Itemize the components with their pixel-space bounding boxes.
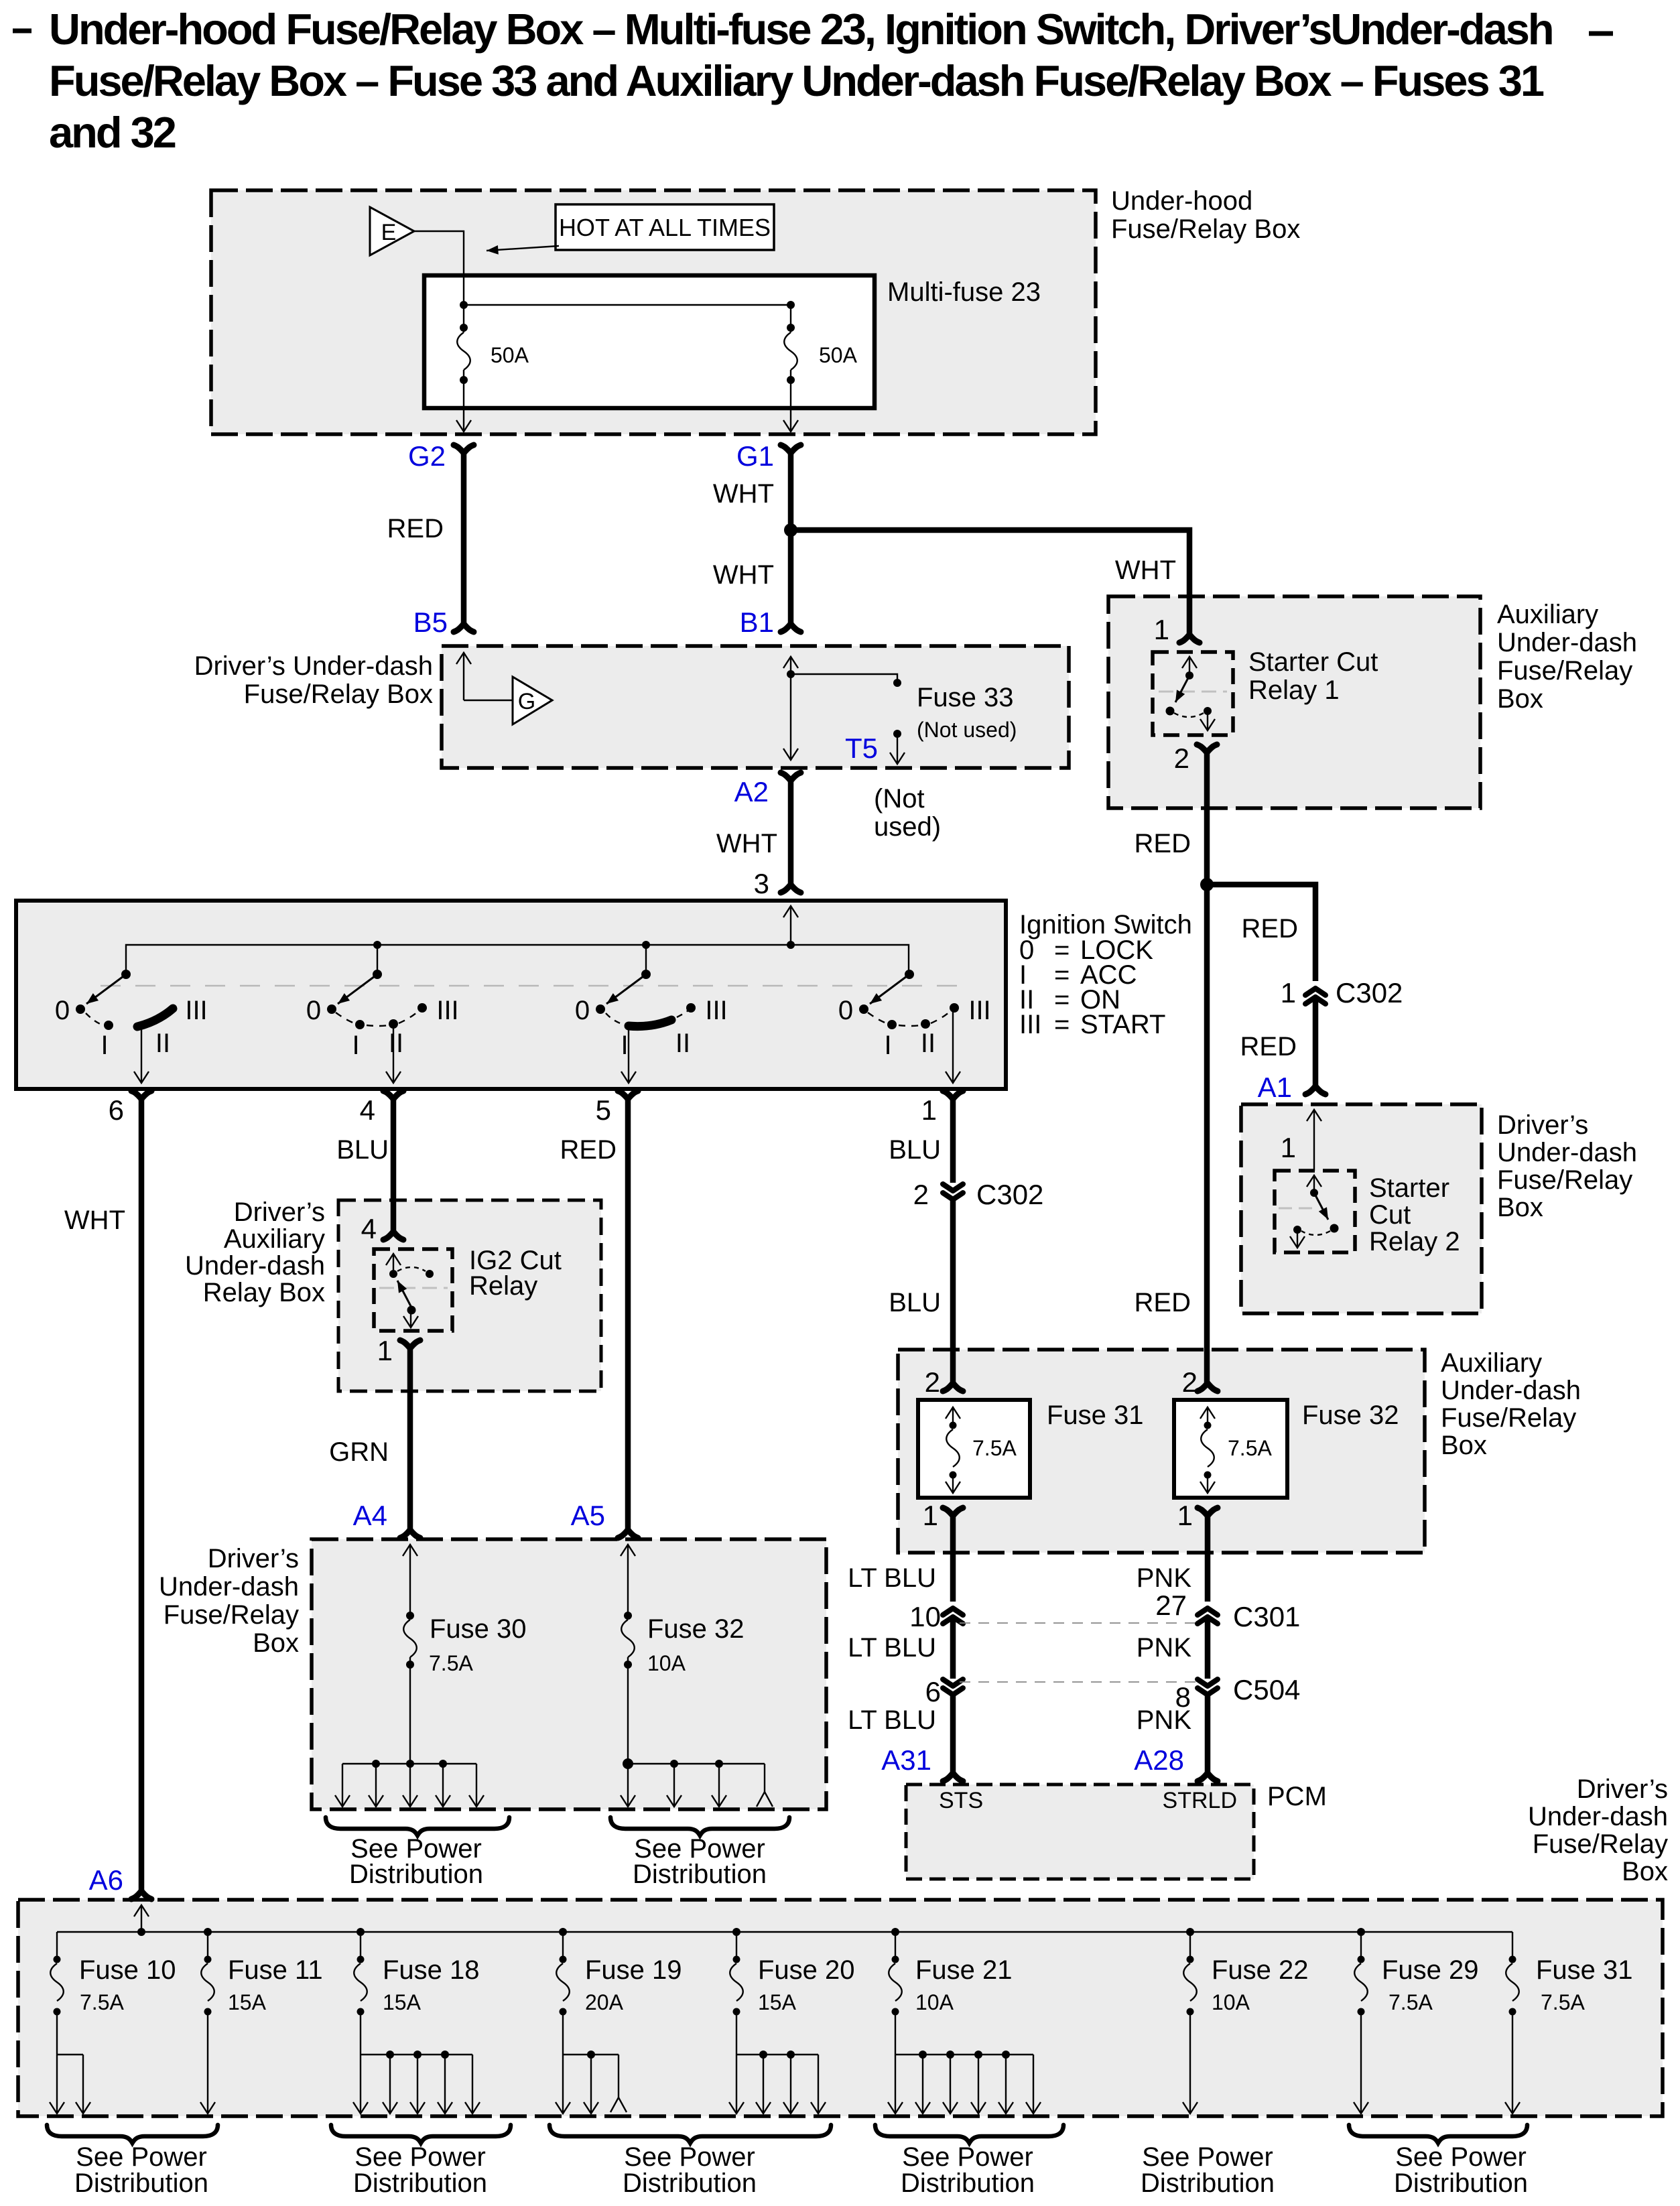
svg-text:II: II: [921, 1029, 935, 1058]
svg-text:Box: Box: [1622, 1857, 1668, 1886]
svg-text:Fuse/Relay: Fuse/Relay: [164, 1600, 299, 1630]
title dash left: [13, 29, 31, 34]
connector C302 pin 1: [1305, 988, 1326, 1004]
svg-text:Relay: Relay: [469, 1271, 537, 1301]
svg-text:T5: T5: [845, 732, 878, 764]
fuse 32 10A: [627, 1545, 629, 1616]
svg-text:Driver’s: Driver’s: [1497, 1110, 1588, 1140]
fuse F18 branch: [360, 2012, 361, 2055]
svg-text:50A: 50A: [491, 343, 529, 367]
svg-text:10: 10: [909, 1601, 941, 1632]
svg-text:Under-dash: Under-dash: [1497, 628, 1637, 657]
fuse F22 drop: [1189, 2012, 1191, 2114]
svg-text:Starter: Starter: [1369, 1173, 1449, 1203]
svg-text:2: 2: [1182, 1366, 1198, 1398]
wire pin1 BLU: [950, 1099, 956, 1183]
fuse F10 branch: [56, 2012, 58, 2055]
svg-text:RED: RED: [1135, 829, 1191, 858]
svg-text:1: 1: [923, 1500, 938, 1531]
svg-text:G2: G2: [408, 440, 446, 472]
svg-text:5: 5: [596, 1094, 611, 1126]
svg-text:See Power: See Power: [1142, 2142, 1273, 2172]
fuse 50A right: [790, 305, 791, 332]
svg-text:WHT: WHT: [716, 829, 777, 858]
svg-text:A4: A4: [353, 1500, 387, 1531]
svg-text:(Not used): (Not used): [917, 718, 1017, 742]
svg-text:G1: G1: [736, 440, 774, 472]
svg-text:See Power: See Power: [624, 2142, 755, 2172]
svg-text:Under-dash: Under-dash: [1497, 1138, 1637, 1167]
fuse F21 10A: [895, 1932, 896, 1959]
power source E: [370, 207, 414, 255]
svg-text:7.5A: 7.5A: [1228, 1436, 1272, 1460]
svg-text:E: E: [381, 220, 397, 245]
svg-text:A5: A5: [571, 1500, 605, 1531]
fuse 30 branch tree: [342, 1763, 476, 1764]
relay 2 internals: [1313, 1175, 1315, 1191]
svg-text:A2: A2: [734, 776, 769, 807]
fuse F19 branch: [562, 2012, 564, 2055]
connector A1: [1305, 1086, 1326, 1094]
svg-text:6: 6: [109, 1094, 124, 1126]
connector A2: [781, 773, 801, 781]
svg-text:C301: C301: [1233, 1601, 1300, 1632]
svg-text:1: 1: [1177, 1500, 1193, 1531]
svg-text:III: III: [1019, 1010, 1041, 1039]
svg-text:1: 1: [1281, 1132, 1296, 1163]
wire fuse31 LT BLU: [950, 1516, 956, 1602]
wire B1-A2 internal: [790, 657, 791, 710]
svg-text:Distribution: Distribution: [633, 1860, 767, 1889]
svg-text:I: I: [621, 1031, 628, 1060]
driver's under-dash fuse/relay box (fuses 30,32): [312, 1539, 826, 1809]
pin 6 connector: [131, 1091, 151, 1099]
brace see power distribution (fuse 30): [326, 1817, 509, 1835]
connector B1: [781, 624, 801, 632]
svg-text:WHT: WHT: [713, 560, 774, 590]
svg-text:50A: 50A: [819, 343, 858, 367]
svg-text:STS: STS: [939, 1788, 983, 1813]
pin 5 connector: [618, 1091, 638, 1099]
svg-text:II: II: [389, 1029, 403, 1058]
wire C302-fuse31 BLU: [950, 1201, 956, 1383]
svg-text:7.5A: 7.5A: [80, 1990, 124, 2014]
C301 dashed link: [960, 1622, 1201, 1624]
svg-text:HOT AT ALL TIMES: HOT AT ALL TIMES: [559, 214, 771, 241]
fuse F20 branch: [736, 2012, 737, 2055]
svg-text:15A: 15A: [383, 1990, 422, 2014]
svg-text:=: =: [1054, 1010, 1070, 1039]
internal bus: [126, 945, 909, 974]
fuse 32 element 7.5A: [1207, 1407, 1208, 1423]
svg-text:Fuse 31: Fuse 31: [1047, 1401, 1144, 1430]
connector A31: [943, 1773, 963, 1781]
connector C302 pin 2: [943, 1184, 963, 1199]
svg-text:Fuse 11: Fuse 11: [228, 1955, 323, 1985]
svg-text:Driver’s: Driver’s: [208, 1544, 299, 1573]
wire relay1 RED down: [1204, 753, 1210, 1383]
wire fuse32 PNK: [1205, 1516, 1211, 1602]
ignition switch pole 2 (pin 4): [373, 970, 382, 979]
fuse 32 box: [1174, 1400, 1287, 1498]
feed from pin 3: [790, 906, 791, 945]
svg-text:Distribution: Distribution: [901, 2168, 1035, 2198]
svg-text:and 32: and 32: [49, 108, 176, 157]
ignition switch box: [16, 901, 1006, 1089]
ignition switch pole 3 (pin 5): [641, 970, 651, 979]
brace see power distribution (fuse 32): [610, 1817, 789, 1835]
svg-text:Fuse 32: Fuse 32: [1302, 1401, 1399, 1430]
svg-text:Fuse 33: Fuse 33: [917, 683, 1014, 712]
svg-text:2: 2: [1174, 742, 1189, 774]
svg-text:Driver’s: Driver’s: [234, 1197, 325, 1227]
see power distribution: [875, 2125, 1063, 2143]
svg-text:A31: A31: [881, 1744, 931, 1776]
svg-text:LT BLU: LT BLU: [848, 1633, 936, 1663]
junction node: [784, 523, 797, 537]
connector C504 pin 8: [1198, 1679, 1218, 1695]
svg-text:Box: Box: [253, 1628, 299, 1658]
connector C301 pin 10: [943, 1608, 963, 1624]
svg-text:10A: 10A: [1212, 1990, 1250, 2014]
svg-text:See Power: See Power: [354, 2142, 486, 2172]
C504 dashed link: [960, 1681, 1201, 1683]
svg-text:See Power: See Power: [902, 2142, 1033, 2172]
svg-text:1: 1: [921, 1094, 937, 1126]
svg-text:I: I: [101, 1031, 108, 1060]
svg-text:See Power: See Power: [76, 2142, 207, 2172]
svg-text:B1: B1: [740, 606, 774, 638]
fuse F18 15A: [360, 1932, 361, 1959]
svg-text:BLU: BLU: [889, 1288, 941, 1317]
fuse F11 15A: [207, 1932, 208, 1959]
svg-text:WHT: WHT: [713, 479, 774, 509]
svg-text:Fuse 21: Fuse 21: [915, 1955, 1013, 1985]
see power distribution: [331, 2125, 511, 2143]
PCM box: [906, 1785, 1254, 1879]
junction node RED: [1200, 878, 1214, 891]
internal bus wire: [464, 304, 791, 306]
svg-text:II: II: [155, 1029, 170, 1058]
fuse31 pin 2 connector: [943, 1383, 963, 1391]
A6 internal arrow: [141, 1905, 142, 1932]
svg-text:G: G: [518, 689, 535, 714]
svg-text:Fuse 10: Fuse 10: [79, 1955, 176, 1985]
svg-text:20A: 20A: [585, 1990, 624, 2014]
wire branch RED to C302: [1207, 885, 1315, 981]
svg-text:A1: A1: [1258, 1072, 1292, 1103]
svg-text:I: I: [352, 1031, 359, 1060]
svg-text:RED: RED: [1242, 914, 1298, 944]
svg-text:3: 3: [754, 868, 769, 899]
fuse 32 branch tree: [628, 1763, 765, 1764]
svg-text:Auxiliary: Auxiliary: [1441, 1348, 1542, 1378]
svg-text:LT BLU: LT BLU: [848, 1705, 936, 1735]
svg-text:1: 1: [377, 1335, 393, 1366]
svg-text:Distribution: Distribution: [623, 2168, 757, 2198]
svg-text:2: 2: [913, 1179, 929, 1210]
connector C504 pin 6: [943, 1679, 963, 1695]
fuse 33 (not used): [791, 674, 897, 679]
svg-text:C302: C302: [1336, 977, 1403, 1009]
fuse F11 drop: [207, 2012, 208, 2114]
svg-text:III: III: [185, 996, 207, 1025]
svg-text:7.5A: 7.5A: [429, 1651, 473, 1675]
svg-text:III: III: [705, 996, 727, 1025]
svg-text:PCM: PCM: [1267, 1782, 1327, 1811]
HOT AT ALL TIMES box: [556, 204, 774, 250]
svg-text:III: III: [436, 996, 458, 1025]
svg-text:START: START: [1080, 1010, 1165, 1039]
svg-text:RED: RED: [560, 1135, 617, 1165]
fuse 31 element 7.5A: [952, 1407, 954, 1423]
fuse31 pin 1 connector: [943, 1508, 963, 1516]
svg-text:Fuse 22: Fuse 22: [1212, 1955, 1309, 1985]
connector G2: [454, 445, 474, 453]
svg-text:Under-hood Fuse/Relay Box – Mu: Under-hood Fuse/Relay Box – Multi-fuse 2…: [49, 5, 1553, 54]
svg-text:WHT: WHT: [64, 1206, 125, 1235]
driver's under-dash fuse/relay box (relay 2): [1241, 1104, 1482, 1313]
auxiliary under-dash fuse/relay box (fuses 31,32): [898, 1350, 1425, 1553]
svg-text:C504: C504: [1233, 1674, 1300, 1705]
svg-text:Under-dash: Under-dash: [1441, 1376, 1581, 1405]
see power distribution: [550, 2125, 831, 2143]
IG2 relay internals: [393, 1254, 394, 1272]
svg-text:7.5A: 7.5A: [1388, 1990, 1433, 2014]
relay pin 4 connector: [383, 1232, 403, 1240]
wire branch WHT to aux box: [791, 530, 1189, 635]
svg-text:7.5A: 7.5A: [1541, 1990, 1585, 2014]
svg-text:Distribution: Distribution: [1141, 2168, 1275, 2198]
svg-text:0: 0: [838, 996, 853, 1025]
svg-text:0: 0: [575, 996, 590, 1025]
see power distribution: [47, 2125, 218, 2143]
auxiliary under-dash fuse/relay box (relay 1): [1108, 596, 1480, 808]
connector A6: [131, 1891, 151, 1899]
svg-text:PNK: PNK: [1137, 1633, 1192, 1663]
connector A4: [400, 1530, 420, 1538]
svg-text:Cut: Cut: [1369, 1200, 1411, 1230]
relay pin 1 connector: [400, 1340, 420, 1348]
connector G1: [781, 445, 801, 453]
svg-text:Fuse/Relay: Fuse/Relay: [1497, 656, 1632, 686]
svg-text:1: 1: [1154, 614, 1169, 645]
wire pin5-A5 RED: [625, 1099, 631, 1530]
svg-text:Distribution: Distribution: [1394, 2168, 1528, 2198]
fuse32 pin 1 connector: [1198, 1508, 1218, 1516]
wire LT BLU mid: [950, 1619, 956, 1679]
wire PNK low: [1205, 1696, 1211, 1773]
svg-text:B5: B5: [413, 606, 448, 638]
svg-text:II: II: [675, 1029, 690, 1058]
svg-text:III: III: [968, 996, 990, 1025]
svg-text:10A: 10A: [647, 1651, 686, 1675]
svg-text:Fuse 32: Fuse 32: [647, 1614, 745, 1644]
svg-text:4: 4: [361, 1213, 377, 1244]
svg-text:Fuse 30: Fuse 30: [430, 1614, 527, 1644]
under-hood fuse/relay box: [211, 190, 1096, 434]
svg-text:Fuse/Relay Box: Fuse/Relay Box: [1111, 214, 1300, 244]
svg-text:Fuse/Relay Box: Fuse/Relay Box: [244, 679, 433, 709]
see power distribution: [1349, 2125, 1527, 2143]
fuse 50A left: [463, 305, 464, 332]
driver's under-dash fuse/relay box (bottom): [18, 1900, 1663, 2116]
svg-text:BLU: BLU: [889, 1135, 941, 1165]
relay2 pin 1 wire: [1313, 1110, 1315, 1171]
wire G2-B5 RED: [461, 453, 467, 624]
fuse F21 branch: [895, 2012, 896, 2055]
svg-text:7.5A: 7.5A: [972, 1436, 1017, 1460]
connector B5: [454, 624, 474, 632]
title dash right: [1589, 31, 1613, 36]
svg-text:RED: RED: [1135, 1288, 1191, 1317]
svg-text:Fuse/Relay: Fuse/Relay: [1441, 1403, 1576, 1433]
svg-text:Under-dash: Under-dash: [1528, 1802, 1668, 1831]
svg-text:used): used): [874, 812, 941, 842]
svg-text:PNK: PNK: [1137, 1705, 1192, 1735]
fuse 30 7.5A: [409, 1545, 411, 1616]
ignition switch pole 4 (pin 1): [905, 970, 914, 979]
svg-text:Driver’s: Driver’s: [1577, 1774, 1668, 1804]
wire pin6-A6 WHT: [139, 1099, 145, 1891]
fuse F20 15A: [736, 1932, 737, 1959]
svg-text:Fuse/Relay: Fuse/Relay: [1497, 1165, 1632, 1195]
IG2 cut relay box: [374, 1249, 452, 1331]
driver's under-dash fuse/relay box (fuse 33): [442, 646, 1069, 768]
svg-text:4: 4: [360, 1094, 375, 1126]
relay1 pin 2 connector: [1197, 744, 1217, 753]
svg-text:Starter Cut: Starter Cut: [1248, 647, 1378, 677]
svg-text:2: 2: [925, 1366, 940, 1398]
svg-text:A6: A6: [89, 1864, 123, 1896]
svg-text:PNK: PNK: [1137, 1563, 1192, 1593]
internal gray dashed line: [101, 985, 965, 987]
relay1 pin 1 connector: [1179, 635, 1200, 643]
ground G symbol: [513, 677, 552, 724]
connector A5: [618, 1530, 638, 1538]
wire LT BLU low: [950, 1696, 956, 1773]
svg-text:BLU: BLU: [336, 1135, 389, 1165]
driver's auxiliary under-dash relay box: [338, 1200, 601, 1391]
fuse F10 7.5A: [56, 1932, 58, 1959]
fuse F31 drop: [1512, 2012, 1513, 2114]
fuse F31 7.5A: [1512, 1932, 1513, 1959]
svg-text:Under-dash: Under-dash: [185, 1251, 325, 1281]
fuse32 pin 2 connector: [1198, 1383, 1218, 1391]
svg-text:A28: A28: [1134, 1744, 1184, 1776]
svg-text:Under-hood: Under-hood: [1111, 186, 1252, 216]
wire G1-B1 WHT: [788, 453, 794, 624]
svg-text:Fuse 31: Fuse 31: [1536, 1955, 1633, 1985]
wire A2-3 WHT: [788, 781, 794, 885]
svg-text:Fuse/Relay: Fuse/Relay: [1533, 1829, 1668, 1859]
svg-text:Relay Box: Relay Box: [203, 1278, 325, 1307]
svg-text:RED: RED: [387, 514, 444, 543]
svg-text:GRN: GRN: [329, 1437, 389, 1467]
fuse F22 10A: [1189, 1932, 1191, 1959]
svg-text:(Not: (Not: [874, 784, 925, 814]
svg-text:1: 1: [1281, 977, 1296, 1009]
svg-text:Fuse 29: Fuse 29: [1382, 1955, 1479, 1985]
svg-text:Box: Box: [1497, 684, 1543, 714]
svg-text:Distribution: Distribution: [353, 2168, 487, 2198]
svg-text:Under-dash: Under-dash: [159, 1572, 299, 1602]
fuse F29 7.5A: [1360, 1932, 1362, 1959]
svg-text:WHT: WHT: [1115, 556, 1176, 585]
wire PNK mid: [1205, 1619, 1211, 1679]
svg-text:15A: 15A: [228, 1990, 267, 2014]
svg-text:LT BLU: LT BLU: [848, 1563, 936, 1593]
pin 4 connector: [383, 1091, 403, 1099]
connector C301 pin 27: [1198, 1608, 1218, 1624]
svg-text:Relay 2: Relay 2: [1369, 1227, 1460, 1256]
svg-text:Box: Box: [1441, 1431, 1487, 1460]
svg-text:15A: 15A: [758, 1990, 797, 2014]
svg-text:Auxiliary: Auxiliary: [224, 1224, 325, 1254]
svg-text:See Power: See Power: [1395, 2142, 1527, 2172]
svg-text:0: 0: [55, 996, 70, 1025]
svg-text:10A: 10A: [915, 1990, 954, 2014]
fuse F29 drop: [1360, 2012, 1362, 2114]
connector A28: [1198, 1773, 1218, 1781]
wire from E to multi-fuse: [414, 231, 464, 303]
fuse F19 20A: [562, 1932, 564, 1959]
wire C302-A1 RED: [1313, 1000, 1319, 1086]
svg-text:Fuse 18: Fuse 18: [383, 1955, 480, 1985]
svg-text:I: I: [884, 1031, 891, 1060]
internal bus: [57, 1931, 1512, 1933]
multi-fuse 23 box: [424, 275, 875, 408]
svg-text:6: 6: [925, 1676, 941, 1707]
svg-text:Distribution: Distribution: [74, 2168, 208, 2198]
svg-text:Relay 1: Relay 1: [1248, 675, 1340, 705]
fuse 31 box: [918, 1400, 1030, 1498]
svg-text:Multi-fuse 23: Multi-fuse 23: [887, 277, 1041, 307]
svg-text:Fuse 20: Fuse 20: [758, 1955, 855, 1985]
svg-text:STRLD: STRLD: [1163, 1788, 1237, 1813]
svg-text:Driver’s Under-dash: Driver’s Under-dash: [194, 651, 433, 681]
svg-text:Distribution: Distribution: [349, 1860, 483, 1889]
arrow from HOT box to wire: [487, 246, 559, 251]
svg-text:Fuse/Relay Box – Fuse 33 and A: Fuse/Relay Box – Fuse 33 and Auxiliary U…: [49, 56, 1544, 105]
svg-text:Auxiliary: Auxiliary: [1497, 600, 1598, 629]
wire pin4 BLU: [391, 1099, 397, 1232]
node fuse 33 tap: [787, 670, 795, 678]
svg-text:C302: C302: [976, 1179, 1043, 1210]
svg-text:Fuse 19: Fuse 19: [585, 1955, 682, 1985]
starter cut relay 1 box: [1153, 652, 1233, 735]
starter cut relay 2 box: [1275, 1171, 1355, 1252]
ignition switch pole 1 (pin 6): [121, 970, 131, 979]
svg-text:27: 27: [1155, 1589, 1187, 1621]
pin 1 connector: [943, 1091, 963, 1099]
pin 3 connector: [781, 885, 801, 893]
relay 1 internals: [1189, 657, 1190, 673]
wire B5 internal to G: [463, 653, 464, 700]
svg-text:0: 0: [306, 996, 321, 1025]
svg-text:Box: Box: [1497, 1193, 1543, 1222]
wire relay-A4 GRN: [407, 1348, 413, 1530]
svg-text:RED: RED: [1240, 1032, 1297, 1061]
